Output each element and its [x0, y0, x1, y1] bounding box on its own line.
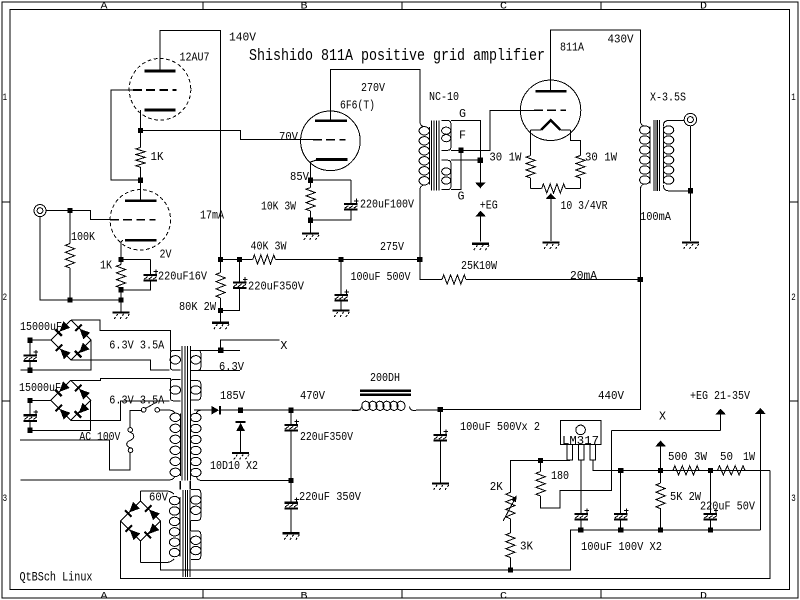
wire diode to choke — [221, 409, 361, 411]
svg-text:G: G — [459, 107, 466, 121]
bridge rectifier B1 (6.3V #1) diode top-right — [75, 325, 90, 340]
wire lower winding top lead — [451, 159, 480, 161]
svg-text:D: D — [700, 0, 707, 12]
wire 275V rail segment — [221, 259, 253, 261]
svg-text:180: 180 — [551, 469, 569, 483]
wire rail cap3 down — [709, 470, 711, 508]
PT HV top lead — [196, 410, 211, 413]
PT winding R2 — [191, 381, 201, 400]
svg-text:470V: 470V — [300, 389, 326, 403]
wire R1 top lead stub — [195, 349, 240, 351]
svg-text:200DH: 200DH — [370, 371, 400, 385]
wire B2 plus to cap2 — [30, 399, 51, 401]
junction input node — [67, 208, 72, 213]
svg-text:220uF 350V: 220uF 350V — [299, 490, 362, 504]
811A plate lead to output transformer — [551, 30, 641, 120]
wire B2 minus loop — [30, 400, 91, 430]
wire NC-10 feed down — [420, 260, 442, 280]
wire input to V1b grid — [46, 211, 110, 220]
resistor 10K 3W (6F6 cathode) — [310, 180, 312, 187]
6F6 grid (dashed bar) — [313, 139, 346, 141]
capacitor 100uF 100V first — [574, 509, 589, 530]
svg-text:B: B — [301, 0, 308, 12]
wire HV winding to diode — [194, 409, 212, 411]
svg-text:6.3V 3.5A: 6.3V 3.5A — [109, 393, 165, 407]
capacitor 220uF16V — [144, 260, 159, 282]
ground shunt diode — [232, 446, 249, 460]
svg-text:185V: 185V — [220, 389, 246, 403]
capacitor 100uF 100V second — [614, 508, 629, 530]
capacitor 15000uF second — [23, 400, 38, 430]
wire ADJ to pot — [510, 460, 569, 493]
svg-text:15000uF: 15000uF — [19, 381, 61, 395]
wire F lead to 811A grid — [451, 110, 534, 150]
V1b plate lead — [140, 180, 142, 200]
svg-text:LM317: LM317 — [562, 435, 599, 448]
diode 10D10 shunt — [236, 422, 246, 431]
arrow +EG aux — [755, 408, 765, 470]
wire AC hot stub — [20, 440, 130, 470]
wire B1 minus loop — [30, 340, 91, 370]
junction 6F6 cathode 85V node — [308, 178, 313, 183]
wire IN to rail — [593, 460, 770, 471]
svg-text:10K 3W: 10K 3W — [261, 199, 297, 213]
X-3.5S primary winding — [640, 126, 650, 184]
svg-text:+EG: +EG — [480, 198, 498, 212]
tube V1b 12AU7 lower-half envelope (dashed circle) — [110, 190, 170, 250]
V1a plate bar — [145, 70, 176, 73]
bridge rectifier B2 (6.3V #2) diode bottom-left — [56, 405, 71, 420]
svg-text:D: D — [700, 591, 707, 600]
bridge rectifier B3 (60V bias) diode bottom-left — [125, 525, 140, 540]
svg-text:A: A — [101, 591, 109, 600]
svg-text:440V: 440V — [598, 389, 625, 403]
svg-text:220uF16V: 220uF16V — [158, 269, 208, 283]
wire X node stub — [221, 340, 280, 350]
fuse — [127, 428, 134, 453]
svg-text:100uF 500Vx 2: 100uF 500Vx 2 — [460, 420, 540, 434]
811A filament right leg — [570, 130, 580, 156]
wire 440V rail — [440, 408, 640, 410]
ground filament pot — [542, 243, 559, 250]
bridge rectifier B1 (6.3V #1) diode bottom-right — [75, 343, 90, 358]
PT-to-lower-transformer link right — [189, 481, 191, 490]
resistor 500 3W — [673, 466, 699, 475]
V1b grid (dashed bar) — [110, 219, 156, 221]
wire 275V rail to NC-10 — [275, 259, 419, 261]
pot 2K wiper arrow — [503, 495, 517, 520]
junction 180 top — [538, 458, 543, 463]
arrow +EG source (up) — [475, 211, 485, 242]
resistor 100K (grid leak) — [69, 211, 71, 244]
svg-text:1W: 1W — [743, 450, 756, 464]
wire cap bottom loop — [121, 282, 150, 290]
X-3.5S primary bottom lead — [640, 184, 644, 280]
6F6 cathode lead — [311, 160, 318, 181]
NC-10 primary bottom lead — [420, 185, 424, 260]
svg-text:12AU7: 12AU7 — [180, 51, 210, 65]
wire X/EG top run — [612, 429, 721, 431]
capacitor 220uF 50V — [704, 508, 719, 530]
svg-text:1: 1 — [791, 92, 796, 104]
PT primary bottom lead — [21, 476, 175, 480]
X-3.5S core — [654, 120, 660, 191]
svg-text:3K: 3K — [520, 540, 534, 554]
svg-text:140V: 140V — [229, 31, 257, 45]
junction rail mid — [708, 468, 713, 473]
svg-text:100mA: 100mA — [640, 210, 672, 224]
svg-text:60V: 60V — [149, 491, 169, 505]
svg-text:Shishido 811A positive grid am: Shishido 811A positive grid amplifier — [249, 47, 545, 66]
wire choke to 440V rail — [416, 409, 440, 411]
junction cap2 bottom — [618, 527, 623, 532]
arrow node X — [655, 441, 665, 471]
bridge rectifier B1 (6.3V #1) diode bottom-left — [56, 345, 71, 360]
wire cap to ground — [439, 441, 441, 477]
wire 440V riser — [440, 279, 640, 409]
bridge rectifier B3 (60V bias) diamond outline — [121, 501, 161, 541]
svg-text:270V: 270V — [361, 81, 386, 95]
V1b cathode lead — [121, 240, 123, 259]
ground 100uF500V — [333, 302, 350, 318]
svg-text:70V: 70V — [279, 130, 299, 144]
svg-text:100uF 100V X2: 100uF 100V X2 — [581, 540, 662, 554]
resistor 80K 2W (bleeder) — [220, 260, 222, 273]
wire 80K node to cap 220uF350V bottom — [221, 288, 240, 310]
bridge rectifier B3 (60V bias) diode top-left — [125, 502, 140, 517]
junction 80K bottom — [218, 308, 223, 313]
svg-text:1K: 1K — [151, 150, 165, 164]
LM317 leg 1 ADJ — [567, 445, 573, 460]
svg-text:1: 1 — [3, 92, 8, 104]
svg-text:275V: 275V — [380, 240, 405, 254]
wire B1 plus to cap1 — [30, 339, 51, 341]
capacitor 15000uF first — [23, 340, 38, 370]
junction input ground rail — [118, 297, 123, 302]
junction filter cap mid — [288, 478, 293, 483]
bridge rectifier B1 (6.3V #1) diode top-left — [55, 321, 70, 336]
wire V1a cathode to 6F6 grid — [141, 131, 314, 140]
6F6 cathode bar — [316, 158, 348, 161]
wire B1 ac bottom to winding L1 — [71, 360, 170, 370]
wire F to bottom G lead — [451, 150, 461, 189]
ground input rail — [113, 300, 130, 320]
junction 140V node on rail — [218, 257, 223, 262]
arrow +EG output — [715, 409, 725, 431]
svg-text:85V: 85V — [290, 170, 310, 184]
svg-text:G: G — [458, 189, 465, 203]
resistor 5K 2W — [660, 470, 662, 483]
junction V1b plate node — [138, 178, 143, 183]
junction V1a cathode node — [138, 128, 143, 133]
wire B3 plus to mid rail — [161, 521, 761, 570]
junction cap3 bottom — [708, 527, 713, 532]
junction 3K bottom — [508, 567, 513, 572]
junction 440V cap node — [438, 407, 443, 412]
ground 6F6 cathode — [302, 220, 319, 241]
junction secondary bottom — [688, 188, 693, 193]
capacitor 220uF100V — [344, 180, 359, 210]
V1b cathode bar — [125, 239, 157, 242]
V1b plate bar — [125, 199, 157, 202]
svg-text:220uF350V: 220uF350V — [248, 280, 305, 294]
resistor 1K (V1a cathode to V1b plate) — [140, 131, 142, 148]
svg-text:6.3V 3.5A: 6.3V 3.5A — [109, 339, 165, 353]
bridge rectifier B2 (6.3V #2) diamond outline — [51, 380, 91, 420]
lower transformer core — [183, 490, 190, 577]
svg-text:220uF100V: 220uF100V — [360, 198, 415, 212]
svg-text:20mA: 20mA — [570, 269, 598, 283]
LM317 leg 2 OUT — [578, 445, 584, 460]
svg-text:QtBSch Linux: QtBSch Linux — [20, 571, 93, 585]
tube V3 811A envelope — [520, 80, 580, 140]
wire B2 ac top to winding L2 — [71, 379, 171, 381]
power switch — [141, 403, 159, 413]
wire rail cap2 down — [620, 470, 622, 508]
svg-text:C: C — [500, 0, 507, 12]
wire cap1 minus stub — [21, 369, 30, 371]
wire R1 bottom 6.3V stub — [195, 369, 240, 371]
svg-text:100uF 500V: 100uF 500V — [351, 270, 412, 284]
ground 100uF500Vx2 — [432, 476, 449, 491]
capacitor 100uF 500Vx2 — [434, 409, 449, 441]
svg-text:2: 2 — [791, 292, 796, 304]
NC-10 secondary F-G winding — [441, 160, 451, 189]
junction F node — [458, 148, 463, 153]
wire B3 ac top — [140, 491, 142, 501]
wire aux arrow down to bottom rail — [759, 470, 761, 530]
lower TX right winding B — [191, 531, 201, 560]
junction 100uF500V tap — [338, 257, 343, 262]
X-3.5S secondary bottom lead — [663, 185, 690, 191]
input ground lead — [40, 217, 121, 300]
junction 1K/cap bottom — [118, 287, 123, 292]
tube V1a 12AU7 upper-half envelope (dashed circle) — [129, 59, 191, 121]
pot wiper arrow — [546, 193, 556, 241]
svg-text:40K 3W: 40K 3W — [251, 240, 288, 254]
svg-text:220uF 50V: 220uF 50V — [700, 500, 756, 514]
lower TX right winding A — [191, 489, 201, 520]
svg-text:X: X — [280, 339, 287, 353]
junction 5K bottom — [658, 527, 663, 532]
svg-text:2V: 2V — [160, 248, 173, 262]
svg-text:811A: 811A — [560, 40, 585, 54]
V1a cathode lead — [140, 110, 142, 131]
bridge rectifier B2 (6.3V #2) diode top-right — [75, 385, 90, 400]
junction OUT cap bottom rail2 — [578, 527, 583, 532]
link winding A to B — [190, 520, 192, 531]
junction 220uF350V tap — [237, 257, 242, 262]
choke 200DH winding loops — [352, 400, 416, 411]
arrow +EG feed (down) — [475, 160, 485, 188]
svg-text:30 1W: 30 1W — [489, 151, 522, 165]
V1a plate lead and 140V wire to node — [160, 31, 221, 260]
svg-text:10 3/4VR: 10 3/4VR — [561, 199, 608, 213]
X-3.5S secondary top lead — [663, 121, 684, 127]
capacitor 220uF350V first — [233, 260, 248, 289]
junction cap2 minus — [27, 428, 32, 433]
svg-text:6.3V: 6.3V — [219, 360, 245, 374]
811A grid (dashed bar) — [534, 109, 566, 111]
wire 20mA rail — [466, 279, 640, 281]
svg-text:500 3W: 500 3W — [668, 450, 708, 464]
811A filament (inverted V) — [531, 120, 571, 130]
svg-text:5K 2W: 5K 2W — [670, 490, 702, 504]
NC-10 secondary G-F winding — [441, 121, 451, 151]
wire fuse to switch — [130, 410, 141, 427]
svg-text:50: 50 — [720, 450, 733, 464]
svg-text:2: 2 — [3, 292, 8, 304]
wire B1 ac top to winding L1 — [71, 320, 170, 351]
PT HV winding R3 — [191, 413, 201, 476]
resistor 180 — [540, 460, 542, 471]
wire B3 ac bottom — [140, 541, 142, 563]
wire OUT down — [580, 460, 582, 514]
wire 1K bottom to ground rail — [120, 290, 122, 300]
V1a cathode bar — [145, 109, 176, 112]
bridge rectifier B3 (60V bias) diode bottom-right — [144, 523, 159, 538]
svg-text:A: A — [101, 0, 109, 12]
svg-text:6F6(T): 6F6(T) — [340, 98, 375, 112]
resistor 1K (V1b cathode) — [120, 260, 122, 265]
svg-text:100K: 100K — [71, 230, 96, 244]
ground 80K — [212, 310, 229, 330]
60V winding bottom lead — [141, 559, 174, 563]
diode 10D10 series — [212, 406, 220, 415]
svg-text:AC 100V: AC 100V — [79, 430, 121, 444]
svg-text:+EG 21-35V: +EG 21-35V — [690, 389, 751, 403]
junction NC-10 feed — [417, 257, 422, 262]
power transformer core — [182, 346, 190, 481]
resistor 50 1W — [718, 466, 746, 475]
terminal to ground wire — [689, 126, 691, 241]
PT winding L2 6.3V — [170, 380, 180, 401]
junction output transformer return — [638, 277, 643, 282]
wire shunt diode to ground — [240, 431, 242, 446]
svg-text:25K10W: 25K10W — [461, 259, 498, 273]
bridge rectifier B3 (60V bias) diode top-right — [145, 505, 160, 520]
choke 200DH core bars — [360, 391, 411, 395]
wire switch to primary — [160, 409, 171, 411]
6F6 plate lead to NC-10 primary — [330, 69, 419, 120]
X-3.5S primary top lead — [640, 121, 644, 127]
junction 5K top — [658, 468, 663, 473]
output terminal — [684, 113, 696, 125]
junction cap2 plus — [27, 398, 32, 403]
capacitor 220uF350V second — [284, 410, 299, 480]
svg-text:B: B — [301, 591, 308, 600]
svg-text:3: 3 — [3, 493, 8, 505]
svg-text:F: F — [459, 129, 466, 143]
svg-text:X-3.5S: X-3.5S — [650, 90, 686, 104]
junction +EG takeoff — [478, 158, 483, 163]
NC-10 core — [432, 121, 440, 191]
PT HV bottom lead — [196, 476, 291, 480]
ground filter caps — [283, 511, 300, 541]
PT winding R1 6.3V heater — [191, 350, 201, 370]
wire 180 bottom to EG sense — [541, 430, 612, 508]
junction OUT cap bottom — [578, 527, 583, 532]
svg-text:3: 3 — [791, 493, 796, 505]
X-3.5S secondary winding — [663, 126, 673, 184]
svg-text:430V: 430V — [608, 32, 635, 46]
LM317 leg 3 IN — [590, 445, 596, 460]
svg-text:NC-10: NC-10 — [429, 90, 459, 104]
resistor 3K — [506, 533, 515, 558]
wire 85V node to cap 220uF100V — [311, 179, 351, 181]
wire cathode node to cap 220uF16V — [121, 259, 150, 261]
wire 2K to 3K — [509, 519, 511, 533]
resistor 30 1W left (filament) — [526, 156, 535, 179]
wire B2 ac bottom to winding L2 — [71, 401, 170, 421]
ground output secondary — [682, 243, 699, 250]
60V winding top lead — [141, 491, 174, 494]
junction 185V cap node — [238, 408, 243, 413]
regulator U1 LM317 body — [560, 420, 601, 444]
svg-text:15000uF: 15000uF — [20, 320, 62, 334]
svg-text:220uF350V: 220uF350V — [300, 430, 354, 444]
PT primary AC winding — [170, 413, 180, 476]
junction rail cap2 — [618, 468, 623, 473]
PT-to-lower-transformer link left — [179, 481, 181, 490]
junction X heater node — [218, 348, 223, 353]
input terminal (RCA jack) — [34, 205, 46, 217]
60V secondary winding — [169, 496, 179, 556]
811A plate bar — [536, 90, 567, 93]
resistor 30 1W right (filament) — [576, 156, 585, 179]
junction cap1 minus — [27, 368, 32, 373]
svg-text:17mA: 17mA — [200, 209, 225, 223]
bridge rectifier B1 (6.3V #1) diamond outline — [51, 320, 91, 360]
svg-text:80K 2W: 80K 2W — [179, 300, 217, 314]
svg-text:10D10 X2: 10D10 X2 — [210, 459, 258, 473]
junction V1b cathode node — [118, 257, 123, 262]
V1a grid (dashed bar) — [133, 89, 177, 91]
capacitor 100uF 500V — [334, 260, 349, 303]
junction 470V cap node — [288, 408, 293, 413]
V1a grid lead down to V1b plate node — [111, 90, 141, 180]
pot 2K (variable) — [506, 492, 515, 519]
svg-text:2K: 2K — [490, 480, 504, 494]
NC-10 primary winding — [419, 127, 429, 185]
bridge rectifier B2 (6.3V #2) diode bottom-right — [75, 403, 90, 418]
junction 10K bottom — [308, 218, 313, 223]
svg-text:30 1W: 30 1W — [585, 151, 618, 165]
tube V2 6F6 envelope — [301, 111, 361, 171]
junction cap1 plus — [27, 338, 32, 343]
wire B3 minus to bottom rail — [121, 470, 770, 578]
6F6 plate bar — [315, 119, 347, 122]
potentiometer 10 3/4VR element — [531, 188, 542, 190]
resistor 40K 3W (B+ dropper) — [253, 255, 276, 264]
capacitor 220uF 350V third — [284, 480, 299, 511]
811A filament left leg — [530, 130, 532, 156]
ground +EG source — [472, 244, 489, 251]
PT primary top lead — [170, 410, 175, 413]
wire G lead to +EG dropper — [451, 121, 480, 161]
NC-10 primary top lead — [420, 121, 424, 127]
svg-text:C: C — [500, 591, 507, 600]
PT winding L1 6.3V — [170, 350, 180, 370]
svg-text:1K: 1K — [100, 258, 113, 272]
junction 100K bottom — [67, 297, 72, 302]
resistor 25K10W — [442, 275, 466, 284]
bridge rectifier B2 (6.3V #2) diode top-left — [55, 381, 70, 396]
svg-text:X: X — [659, 410, 666, 424]
wire cap bottom to cathode ground node — [311, 211, 351, 221]
